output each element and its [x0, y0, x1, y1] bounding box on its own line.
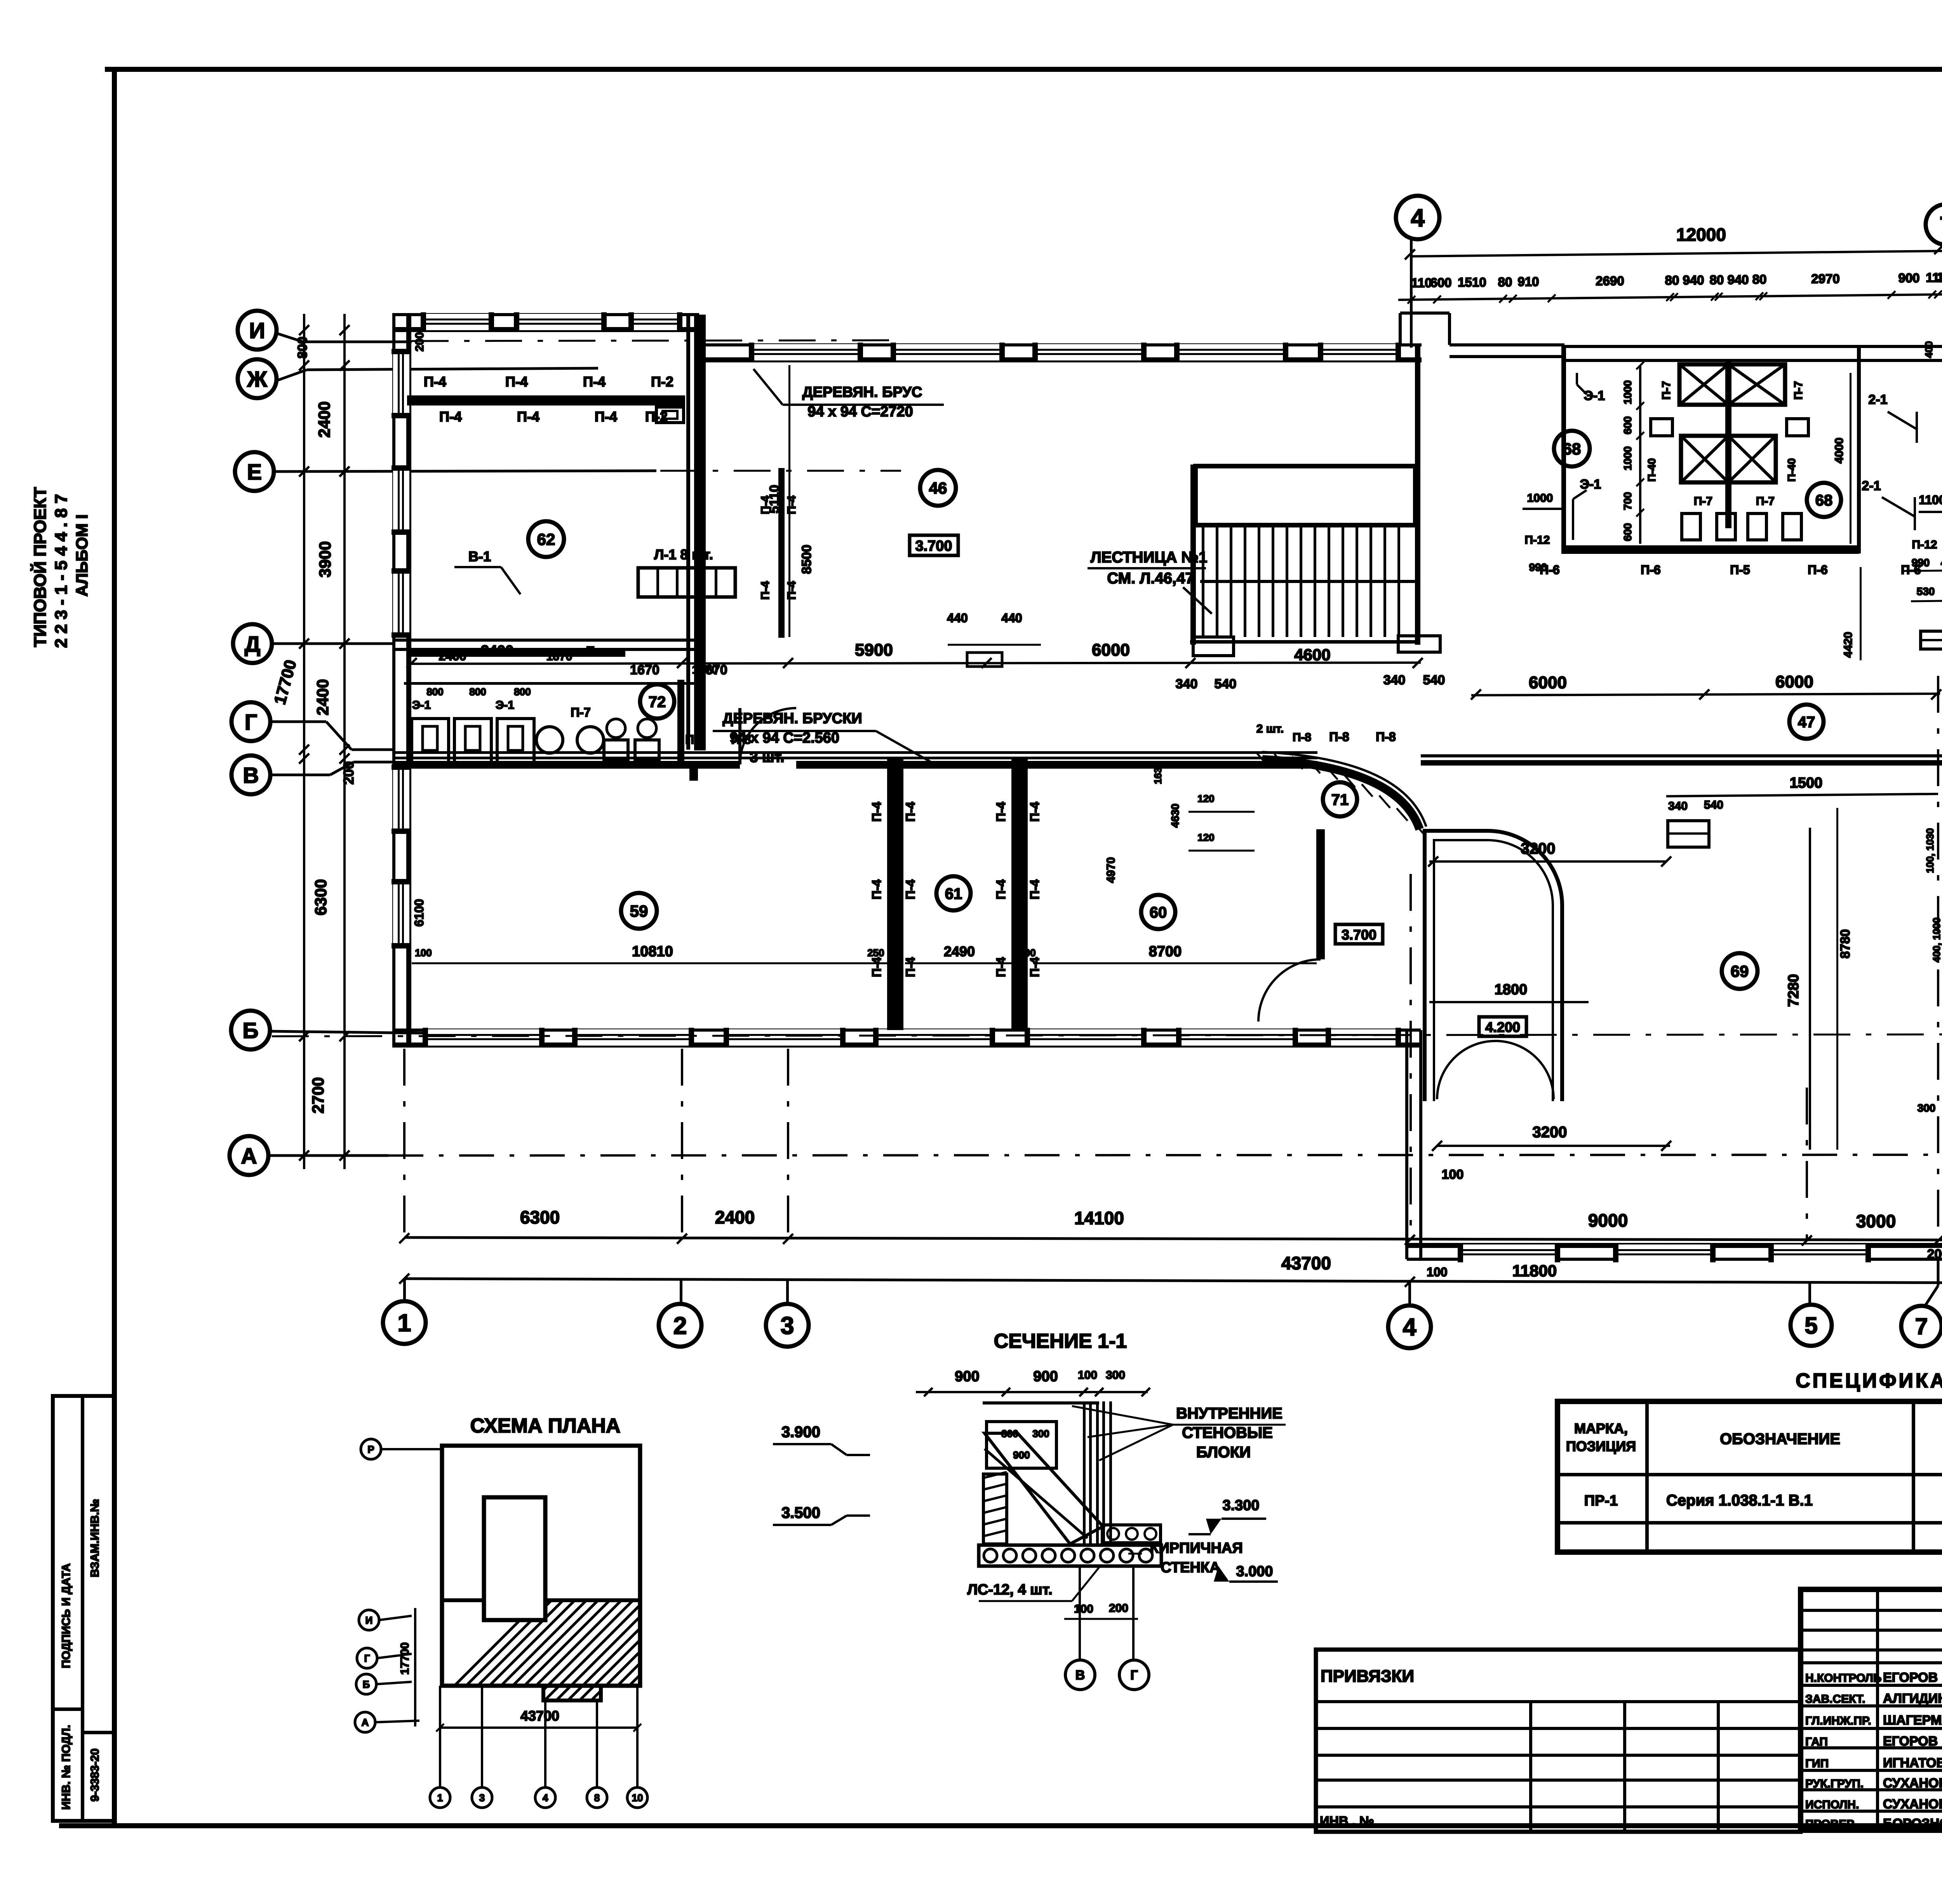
dim 10810 room59	[412, 962, 889, 964]
svg-text:4.200: 4.200	[1485, 1019, 1520, 1035]
svg-text:9-3383-20: 9-3383-20	[89, 1749, 101, 1802]
svg-text:7: 7	[1940, 212, 1942, 238]
svg-text:П-4: П-4	[870, 879, 884, 900]
svg-text:Л-1 8 шт.: Л-1 8 шт.	[654, 546, 713, 562]
svg-text:3900: 3900	[316, 541, 334, 577]
dim 1100	[1919, 511, 1942, 513]
floor box 4.200	[1479, 1017, 1526, 1036]
section lower dims	[1064, 1618, 1138, 1620]
wall room 71 right	[1316, 829, 1325, 959]
svg-text:600: 600	[1622, 523, 1634, 541]
middle top wall window 2	[893, 344, 1002, 360]
svg-text:П-4: П-4	[595, 409, 617, 425]
axis2 thick interior wall (left wing right edge)	[686, 315, 690, 750]
dim 1500 right of corridor	[1666, 794, 1938, 796]
tick small chain	[1499, 295, 1507, 303]
svg-text:П-4: П-4	[994, 957, 1008, 977]
svg-text:П-4: П-4	[1028, 879, 1042, 900]
svg-text:П-6: П-6	[1808, 563, 1827, 577]
svg-text:ЕГОРОВ: ЕГОРОВ	[1883, 1734, 1938, 1749]
dim 8700 room60	[1033, 962, 1317, 964]
svg-text:Г: Г	[1130, 1668, 1138, 1683]
svg-text:П-4: П-4	[870, 957, 884, 977]
bottom wall window 5	[1027, 1029, 1144, 1046]
schema axis circle R	[361, 1439, 381, 1459]
svg-text:4: 4	[1403, 1314, 1416, 1341]
room 46 floor level box 3.700	[910, 535, 958, 555]
svg-text:940: 940	[1727, 272, 1749, 287]
room 69 inner dim 7280	[1809, 828, 1811, 1150]
bottom wall window 2	[575, 1029, 691, 1046]
svg-text:17700: 17700	[398, 1642, 411, 1674]
svg-text:В: В	[1075, 1668, 1085, 1683]
svg-text:1670: 1670	[630, 663, 660, 677]
svg-text:100: 100	[1078, 1369, 1097, 1382]
svg-text:3.700: 3.700	[915, 538, 952, 554]
sanitary room divider wall	[677, 680, 684, 767]
door gap corridor left	[740, 708, 796, 764]
tick small chain	[1934, 291, 1942, 298]
room circle 59	[621, 893, 657, 929]
svg-text:3.900: 3.900	[781, 1424, 820, 1441]
svg-text:47: 47	[1798, 714, 1815, 731]
svg-text:3: 3	[780, 1312, 794, 1340]
svg-text:250: 250	[867, 947, 884, 959]
svg-text:1000: 1000	[1622, 446, 1634, 470]
svg-text:120: 120	[1197, 832, 1214, 843]
svg-text:11800: 11800	[1512, 1262, 1557, 1280]
svg-text:СМ. Л.46,47: СМ. Л.46,47	[1107, 570, 1194, 587]
svg-text:Е: Е	[586, 644, 595, 659]
svg-text:П-8: П-8	[1293, 731, 1311, 744]
svg-text:ПРИВЯЗКИ: ПРИВЯЗКИ	[1321, 1667, 1414, 1686]
svg-text:ПР-1: ПР-1	[1584, 1493, 1618, 1509]
axis circle 4 top	[1396, 196, 1439, 239]
svg-text:900: 900	[1013, 1449, 1030, 1461]
svg-text:В-1: В-1	[468, 548, 491, 564]
svg-text:4600: 4600	[1294, 646, 1330, 664]
block 68 right wall	[1857, 346, 1861, 553]
svg-text:ТИПОВОЙ ПРОЕКТ: ТИПОВОЙ ПРОЕКТ	[30, 487, 50, 647]
corridor 47 bottom wall	[1421, 754, 1942, 757]
schema axis circle B	[356, 1674, 376, 1694]
svg-text:200: 200	[1019, 947, 1035, 959]
svg-text:ГЛ.ИНЖ.ПР.: ГЛ.ИНЖ.ПР.	[1805, 1714, 1871, 1727]
axis circle 1 bottom	[383, 1301, 426, 1344]
svg-text:440: 440	[1001, 611, 1022, 625]
svg-text:69: 69	[1731, 962, 1749, 980]
svg-text:А: А	[362, 1716, 369, 1728]
door arc room 71	[1258, 959, 1321, 1022]
svg-text:П-12: П-12	[1525, 534, 1550, 546]
stair top landing	[1195, 466, 1415, 525]
svg-text:900: 900	[1033, 1368, 1058, 1385]
dim 3200 lower	[1437, 1145, 1670, 1147]
svg-text:П-4: П-4	[759, 581, 772, 600]
svg-text:7: 7	[1915, 1314, 1928, 1339]
svg-text:200: 200	[341, 761, 357, 785]
svg-text:3200: 3200	[1521, 840, 1556, 857]
dim tick top	[1405, 249, 1415, 259]
svg-text:100: 100	[1427, 1265, 1447, 1279]
svg-text:2 шт.: 2 шт.	[1256, 722, 1284, 735]
svg-text:4000: 4000	[1833, 438, 1846, 464]
svg-text:80: 80	[1752, 272, 1767, 287]
svg-text:П-4: П-4	[903, 957, 917, 977]
svg-text:600: 600	[1622, 416, 1634, 435]
shaft small fixtures	[1651, 419, 1672, 436]
tick small chain	[1548, 294, 1556, 302]
svg-text:ГИП: ГИП	[1805, 1757, 1829, 1770]
dim tick	[299, 1150, 309, 1161]
spec table column lines	[1645, 1401, 1649, 1552]
svg-text:П-4: П-4	[903, 802, 917, 822]
svg-text:4: 4	[543, 1792, 548, 1803]
title block columns	[1876, 1589, 1879, 1830]
sheet frame top border	[105, 67, 1942, 72]
svg-text:100: 100	[1442, 1167, 1464, 1182]
svg-text:4: 4	[1411, 204, 1425, 232]
svg-text:2700: 2700	[309, 1077, 327, 1113]
block 68 bottom wall	[1561, 545, 1859, 554]
sheet frame bottom border	[59, 1823, 1942, 1828]
svg-text:А: А	[241, 1144, 257, 1169]
svg-text:300: 300	[1937, 270, 1942, 285]
room circle 46	[920, 470, 956, 506]
bottom wall window 3	[726, 1029, 843, 1046]
tick small chain	[1670, 293, 1678, 301]
svg-text:П-4: П-4	[994, 879, 1008, 900]
stair mid rail	[1200, 580, 1415, 583]
axis circle G	[231, 702, 270, 741]
chain 990 400 1200	[1903, 570, 1942, 571]
svg-text:ПРОВЕР.: ПРОВЕР.	[1805, 1818, 1856, 1831]
svg-text:И: И	[249, 318, 265, 343]
left wall window 4	[393, 767, 409, 831]
svg-text:П-4: П-4	[785, 496, 798, 515]
spec table outline	[1557, 1401, 1942, 1552]
block 68 middle wall	[1725, 361, 1731, 528]
svg-text:530: 530	[1917, 585, 1935, 597]
svg-text:П-12: П-12	[1912, 538, 1937, 551]
svg-text:ГАП: ГАП	[1805, 1735, 1828, 1748]
svg-text:П-4: П-4	[994, 802, 1008, 822]
svg-text:94 х 94 С=2720: 94 х 94 С=2720	[807, 404, 913, 420]
svg-text:43700: 43700	[1281, 1253, 1331, 1273]
porch step at axis 4	[1399, 313, 1402, 345]
svg-text:340: 340	[1668, 800, 1688, 813]
svg-text:СПЕЦИФИКАЦИЯ ПЕРЕМЫЧЕК: СПЕЦИФИКАЦИЯ ПЕРЕМЫЧЕК	[1796, 1370, 1942, 1392]
svg-text:1000: 1000	[1527, 492, 1553, 505]
svg-text:340: 340	[1383, 673, 1406, 687]
svg-text:ЛС-12, 4 шт.: ЛС-12, 4 шт.	[967, 1582, 1052, 1598]
room circle 62	[528, 521, 564, 557]
svg-text:СУХАНОВА: СУХАНОВА	[1883, 1776, 1942, 1791]
privyazki table outline	[1316, 1650, 1801, 1832]
svg-text:80: 80	[1665, 273, 1679, 287]
svg-text:Д: Д	[245, 632, 261, 657]
bottom chain tick	[677, 1234, 687, 1244]
svg-text:400, 1000: 400, 1000	[1931, 917, 1942, 962]
svg-text:БЛОКИ: БЛОКИ	[1196, 1444, 1251, 1461]
room 61/60 thick wall	[1011, 759, 1025, 1030]
axis dash-dot vertical	[403, 1049, 405, 1235]
bottom chain tick	[1933, 1236, 1942, 1246]
lower block bottom exterior wall	[1407, 1243, 1942, 1248]
axis circle V	[231, 755, 270, 794]
left wall window 2	[393, 468, 409, 532]
svg-text:П-2: П-2	[651, 374, 673, 390]
svg-text:12000: 12000	[1676, 225, 1726, 245]
dim 1800	[1429, 1001, 1589, 1003]
dim 1000 left of block	[1523, 508, 1561, 510]
svg-text:4970: 4970	[1105, 857, 1117, 883]
middle top wall window 5	[1321, 344, 1398, 360]
svg-text:Р: Р	[367, 1443, 374, 1455]
svg-text:Ж: Ж	[247, 367, 267, 392]
svg-text:Э-1: Э-1	[412, 699, 431, 712]
stairwell left wall	[1190, 465, 1196, 645]
svg-text:Э-1: Э-1	[496, 699, 514, 712]
svg-text:П-5: П-5	[1730, 563, 1750, 577]
vestibule curved hatched wall	[1262, 759, 1420, 829]
schema axis circle G	[357, 1648, 377, 1668]
svg-text:68: 68	[1815, 492, 1833, 509]
dim tick	[299, 754, 309, 764]
left wall window 1	[393, 352, 409, 416]
svg-text:1000: 1000	[1622, 380, 1634, 404]
svg-text:ИНВ. № ПОДЛ.: ИНВ. № ПОДЛ.	[60, 1725, 73, 1810]
axis2 wall lower part	[689, 761, 698, 781]
svg-text:43700: 43700	[520, 1708, 559, 1724]
toilet stalls	[412, 719, 449, 765]
section axis circle V	[1065, 1660, 1095, 1690]
svg-text:540: 540	[1215, 677, 1237, 691]
dim tick	[299, 325, 309, 335]
lower block bottom window 3	[1771, 1244, 1868, 1261]
top dim line 12000	[1410, 247, 1942, 256]
tick small chain	[1408, 296, 1415, 304]
tick small chain	[1666, 293, 1674, 301]
schema axis circle A	[355, 1712, 375, 1732]
tick small chain	[1711, 293, 1719, 301]
svg-text:300: 300	[1918, 1102, 1936, 1114]
block 68 top wall	[1561, 345, 1862, 348]
dim tick	[299, 745, 309, 755]
svg-text:8780: 8780	[1838, 929, 1853, 959]
lintel icon room 69 top	[1668, 821, 1709, 847]
small lintel mark	[656, 407, 684, 423]
svg-text:ПОДПИСЬ И ДАТА: ПОДПИСЬ И ДАТА	[60, 1563, 73, 1668]
svg-text:РУК.ГРУП.: РУК.ГРУП.	[1805, 1777, 1864, 1790]
svg-text:300: 300	[1106, 1369, 1125, 1382]
svg-text:П-4: П-4	[785, 581, 798, 600]
svg-text:Г: Г	[364, 1652, 370, 1664]
svg-text:2690: 2690	[1596, 274, 1624, 288]
corridor wall G (left part)	[392, 751, 1317, 754]
section floor slab with voids	[979, 1545, 1161, 1566]
bottom wall window 7	[1328, 1029, 1398, 1046]
svg-text:3.000: 3.000	[1236, 1563, 1273, 1580]
axis leader I	[277, 333, 303, 342]
dim tick	[299, 1031, 309, 1041]
bottom dim chain line	[404, 1237, 1942, 1241]
svg-text:2-1: 2-1	[1862, 479, 1881, 493]
svg-text:900: 900	[1898, 271, 1919, 285]
svg-text:П-7: П-7	[1694, 495, 1712, 508]
floor box 3.700 vestibule	[1335, 924, 1383, 944]
svg-text:800: 800	[426, 686, 443, 698]
svg-text:ИНВ . №: ИНВ . №	[1320, 1814, 1374, 1829]
svg-text:П-40: П-40	[1646, 458, 1658, 482]
section stair diagonal	[985, 1433, 1103, 1544]
top wall 4795-5040 segment	[1862, 345, 1942, 348]
svg-text:68: 68	[1563, 440, 1581, 458]
svg-text:ИСПОЛН.: ИСПОЛН.	[1805, 1798, 1859, 1811]
dim tick	[299, 360, 309, 371]
svg-text:100, 1030: 100, 1030	[1924, 828, 1936, 873]
svg-text:2400: 2400	[715, 1207, 755, 1227]
svg-text:ЗАВ.СЕКТ.: ЗАВ.СЕКТ.	[1805, 1693, 1865, 1706]
stamp cell divider 1	[53, 1707, 82, 1711]
svg-text:1: 1	[397, 1310, 411, 1337]
spec table row lines	[1557, 1473, 1942, 1476]
sanitary top wall	[404, 682, 699, 685]
svg-text:П-4: П-4	[903, 879, 917, 900]
svg-text:Б: Б	[243, 1018, 259, 1043]
section hatched pier	[983, 1474, 1007, 1544]
svg-text:61: 61	[945, 885, 962, 902]
svg-text:4630: 4630	[1169, 804, 1181, 828]
svg-text:71: 71	[1331, 791, 1349, 808]
axis B dash-dot	[272, 1034, 1942, 1036]
label 68 left	[1554, 431, 1590, 466]
stair bottom slab left	[1193, 637, 1234, 656]
room 46 left thick wall	[778, 468, 785, 638]
svg-text:990: 990	[1912, 557, 1930, 569]
svg-text:340: 340	[1176, 677, 1198, 691]
svg-text:3.300: 3.300	[1222, 1497, 1259, 1514]
dim 4420 vertical	[1860, 567, 1862, 660]
svg-text:2 2 3 - 1 - 5 4 4 . 8 7: 2 2 3 - 1 - 5 4 4 . 8 7	[52, 494, 71, 648]
svg-text:110: 110	[1411, 275, 1432, 290]
dim 8780 vertical	[1836, 808, 1838, 1150]
svg-text:400: 400	[1923, 341, 1935, 358]
svg-text:3: 3	[479, 1792, 485, 1803]
svg-text:2970: 2970	[1811, 272, 1839, 286]
lintel icon	[1921, 631, 1942, 649]
axis circle 4 bottom	[1388, 1305, 1431, 1348]
svg-text:1510: 1510	[1458, 275, 1486, 289]
svg-text:ВНУТРЕННИЕ: ВНУТРЕННИЕ	[1176, 1405, 1282, 1422]
svg-text:80: 80	[1498, 275, 1512, 289]
room circle 69	[1722, 953, 1758, 989]
svg-text:Н.КОНТРОЛЬ: Н.КОНТРОЛЬ	[1805, 1672, 1881, 1685]
svg-text:П-8: П-8	[1329, 730, 1349, 744]
svg-text:5110: 5110	[767, 485, 782, 513]
svg-text:В: В	[243, 763, 259, 788]
svg-text:ЛЕСТНИЦА №1: ЛЕСТНИЦА №1	[1091, 549, 1208, 566]
svg-text:800: 800	[514, 686, 531, 698]
svg-text:И: И	[365, 1614, 373, 1626]
axis circle E	[235, 452, 274, 491]
block 68 left wall	[1561, 346, 1566, 553]
section wall verticals	[1083, 1401, 1086, 1544]
tick small chain	[1759, 292, 1767, 300]
corridor dim line right part	[1471, 694, 1940, 695]
svg-text:940: 940	[1683, 273, 1704, 287]
bottom wall window 4	[876, 1029, 992, 1046]
axis circle 5 bottom	[1791, 1305, 1832, 1346]
dim tick	[299, 639, 309, 649]
block 68 inner dim line	[1639, 365, 1641, 544]
svg-text:ДЕРЕВЯН. БРУС: ДЕРЕВЯН. БРУС	[802, 384, 922, 400]
svg-text:6100: 6100	[412, 899, 426, 926]
svg-text:П-4: П-4	[1028, 802, 1042, 822]
svg-text:6000: 6000	[1529, 673, 1567, 692]
svg-text:СХЕМА ПЛАНА: СХЕМА ПЛАНА	[470, 1415, 621, 1437]
svg-text:Е: Е	[247, 460, 262, 485]
axis 4 leader	[1410, 239, 1413, 348]
axis dash-dot vertical	[1806, 1088, 1808, 1239]
tick small chain	[1509, 295, 1517, 303]
shaft box row 1	[1679, 364, 1785, 405]
room circle 60	[1141, 895, 1175, 929]
left wing left exterior wall	[392, 313, 395, 1046]
svg-text:2400: 2400	[315, 401, 333, 437]
dim 4000 right of block	[1850, 373, 1852, 544]
bottom wall window 1	[425, 1029, 542, 1046]
stamp column divider	[81, 1396, 84, 1821]
room 59/61 thick wall	[887, 759, 901, 1030]
svg-text:ДЕРЕВЯН. БРУСКИ: ДЕРЕВЯН. БРУСКИ	[722, 710, 862, 727]
tick small chain	[1928, 291, 1936, 298]
svg-text:9000: 9000	[1588, 1210, 1628, 1230]
svg-text:П-4: П-4	[517, 409, 539, 425]
svg-text:10: 10	[632, 1792, 643, 1803]
section left structure	[987, 1422, 1056, 1468]
axis circle 2 bottom	[659, 1304, 701, 1347]
svg-text:П-4: П-4	[1028, 957, 1042, 977]
bottom exterior wall (axis B, rooms 59-60)	[392, 1029, 1421, 1032]
bottom chain tick	[783, 1234, 793, 1244]
schema bottom circles	[439, 1686, 441, 1787]
svg-text:1670: 1670	[546, 650, 573, 663]
svg-text:П-40: П-40	[1785, 458, 1798, 482]
svg-text:3200: 3200	[1533, 1124, 1567, 1141]
svg-text:БОРОЗНОВ: БОРОЗНОВ	[1883, 1816, 1942, 1831]
lower block bottom window 2	[1616, 1244, 1713, 1261]
svg-text:П-8: П-8	[1376, 730, 1396, 744]
middle top wall window 3	[1035, 344, 1144, 360]
middle top wall window 4	[1177, 344, 1286, 360]
svg-text:800: 800	[469, 686, 486, 698]
stamp cell divider 2	[82, 1731, 115, 1734]
stair treads	[1202, 526, 1204, 637]
label 68 right	[1807, 483, 1841, 517]
left wing top exterior wall	[392, 313, 699, 316]
axis E dash-dot stub	[660, 470, 901, 472]
room circle 71	[1323, 782, 1357, 816]
svg-text:600: 600	[1430, 275, 1451, 290]
svg-text:14100: 14100	[1074, 1208, 1124, 1228]
svg-text:440: 440	[947, 611, 968, 625]
svg-text:100: 100	[1074, 1603, 1093, 1615]
title block top small rows	[1801, 1609, 1942, 1612]
bottom wall window 6	[1179, 1029, 1295, 1046]
tick small chain	[1715, 293, 1723, 301]
svg-text:Э-1: Э-1	[1584, 388, 1605, 403]
